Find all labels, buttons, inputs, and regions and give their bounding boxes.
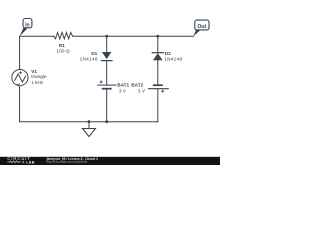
- flag Out: [193, 20, 209, 36]
- polarity + of BAT1: [100, 81, 103, 84]
- wire: BAT2 to bottom rail: [157, 89, 159, 122]
- wire: D1 branch from top rail to diode: [106, 36, 108, 52]
- voltage source V1 (triangle wave): [12, 70, 28, 86]
- node: top rail / D2 junction: [156, 35, 159, 38]
- flag In: [20, 19, 32, 37]
- svg-text:LAB: LAB: [26, 160, 35, 164]
- svg-text:BAT1: BAT1: [117, 82, 129, 87]
- wire: V1 bottom to bottom-left corner: [19, 86, 21, 122]
- wire: BAT1 to bottom rail: [106, 89, 108, 122]
- svg-text:1 kHz: 1 kHz: [31, 80, 44, 85]
- svg-text:BAT2: BAT2: [131, 82, 143, 87]
- wire: left vertical from In corner down to V1 top: [19, 36, 21, 69]
- svg-text:100 Ω: 100 Ω: [56, 49, 70, 54]
- svg-text:In: In: [25, 23, 29, 29]
- wire: D2 branch from top rail to diode: [157, 36, 159, 53]
- resistor R1: [54, 32, 73, 38]
- logo CircuitLab: zigzag wire: [7, 161, 21, 163]
- wire: top rail left segment (In corner to resistor): [20, 35, 54, 37]
- polarity + of BAT2: [161, 90, 164, 93]
- logo CircuitLab: lightning bolt: [22, 160, 25, 164]
- svg-text:triangle: triangle: [31, 74, 47, 79]
- svg-text:3 V: 3 V: [119, 88, 127, 93]
- diode D2 (cathode up): [152, 53, 163, 61]
- footer watermark bar: [0, 157, 220, 165]
- svg-text:D2: D2: [165, 51, 171, 56]
- node: top rail / D1 junction: [105, 35, 108, 38]
- node: bottom rail / BAT1 junction: [105, 120, 108, 123]
- svg-text:Out: Out: [197, 24, 206, 30]
- svg-text:3 V: 3 V: [138, 88, 146, 93]
- svg-text:1N4148: 1N4148: [164, 57, 182, 62]
- node: bottom rail / ground junction: [88, 120, 91, 123]
- svg-text:1N4148: 1N4148: [80, 57, 98, 62]
- svg-text:http://circuitlab.com/c/pkt44l: http://circuitlab.com/c/pkt44le: [46, 160, 87, 164]
- svg-text:D1: D1: [91, 51, 97, 56]
- ground: [82, 122, 95, 137]
- battery BAT1 (plus up): [98, 85, 116, 89]
- wire: top rail from resistor to Out tail: [73, 35, 194, 37]
- wire: D2 to BAT2: [157, 60, 159, 85]
- wire: D1 to BAT1: [106, 61, 108, 86]
- diode D1 (cathode down): [101, 52, 112, 61]
- wire: bottom rail: [20, 121, 158, 123]
- svg-text:R1: R1: [59, 43, 65, 48]
- battery BAT2 (plus down): [149, 85, 169, 89]
